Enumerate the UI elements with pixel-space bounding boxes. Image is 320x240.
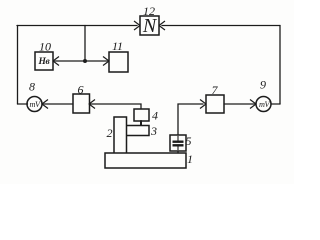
svg-text:N: N — [142, 15, 158, 37]
sample cell 5 inner element — [173, 136, 184, 150]
wire block 4 to block 3 connector — [140, 121, 142, 125]
svg-text:3: 3 — [150, 124, 157, 138]
block 6 — [73, 94, 90, 113]
wire block 6 to meter 8 — [44, 103, 73, 105]
arrowhead into block 10 — [53, 57, 59, 66]
wire into meter 8 — [18, 103, 28, 105]
wire block 7 to meter 9 — [224, 103, 254, 105]
wire left vertical — [17, 26, 19, 105]
svg-text:4: 4 — [152, 109, 158, 123]
arm block 3 — [127, 126, 150, 136]
column 2 — [114, 117, 127, 153]
svg-text:5: 5 — [186, 134, 192, 148]
node junction dot — [83, 59, 87, 63]
wire block 4 to block 6 — [90, 104, 142, 109]
svg-text:2: 2 — [107, 126, 113, 140]
block 4 — [134, 109, 149, 121]
svg-text:8: 8 — [29, 80, 35, 94]
svg-text:10: 10 — [39, 40, 51, 54]
arrowhead into block 6 — [89, 100, 95, 109]
arrowhead into block 7 — [200, 100, 206, 109]
wire right vertical — [279, 26, 281, 105]
svg-text:1: 1 — [187, 152, 193, 166]
svg-text:9: 9 — [260, 78, 266, 92]
svg-text:6: 6 — [78, 83, 84, 97]
svg-text:Нв: Нв — [37, 57, 50, 67]
base 1 — [105, 153, 186, 168]
arrowhead into null indicator 12 left — [134, 21, 140, 30]
arrowhead into meter 8 — [42, 100, 48, 109]
wire top feedback line left — [17, 25, 137, 27]
sample cell 5 — [170, 135, 186, 151]
meter 8 mV — [27, 97, 42, 112]
svg-text:mV: mV — [29, 100, 41, 109]
block 10 (reference) — [35, 52, 53, 70]
meter 9 mV — [256, 97, 271, 112]
wire meter 9 to right vertical — [271, 103, 280, 105]
svg-text:mV: mV — [259, 100, 271, 109]
block 11 — [109, 52, 128, 72]
arrowhead into block 11 — [103, 57, 109, 66]
wire block 5 to base — [177, 151, 179, 153]
svg-text:7: 7 — [212, 83, 219, 97]
arrowhead into meter 9 — [250, 100, 256, 109]
svg-text:11: 11 — [112, 39, 123, 53]
wire branch down to node — [84, 26, 86, 62]
wire top feedback line right — [162, 25, 280, 27]
block 7 — [206, 95, 224, 113]
arrowhead into null indicator 12 right — [159, 21, 165, 30]
wire node to block 11 — [85, 60, 107, 62]
wire node to block 10 — [55, 60, 85, 62]
null indicator block 12 — [140, 16, 159, 35]
wire block 5 up to block 7 — [178, 104, 203, 135]
